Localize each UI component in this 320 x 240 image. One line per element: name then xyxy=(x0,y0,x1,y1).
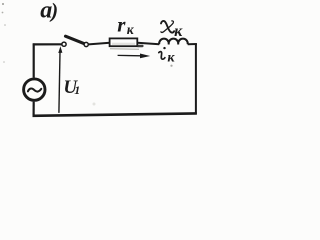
wire switch to resistor xyxy=(89,43,110,45)
svg-text:к: к xyxy=(167,50,175,65)
wire coil to right corner xyxy=(188,43,197,45)
svg-text:r: r xyxy=(117,13,126,37)
inductor x_k coil xyxy=(159,39,188,45)
wire left vertical lower xyxy=(32,102,34,116)
voltage arrow U1 xyxy=(58,46,62,113)
AC source U1 xyxy=(24,79,45,100)
ink blob smudge right of resistor xyxy=(137,45,144,47)
label x_k xyxy=(161,21,183,40)
switch S contact right xyxy=(84,42,88,46)
switch S blade xyxy=(66,36,85,44)
label a) figure part xyxy=(40,0,58,23)
wire resistor to coil xyxy=(137,43,159,45)
current arrow i_k xyxy=(118,54,151,59)
resistor r_k xyxy=(110,38,138,46)
wire right vertical xyxy=(195,44,197,115)
smudge under resistor xyxy=(110,48,139,51)
label r_k xyxy=(117,13,135,37)
svg-text:к: к xyxy=(174,23,183,40)
svg-text:): ) xyxy=(49,0,58,22)
wire bottom horizontal xyxy=(33,113,197,115)
scan speck dots xyxy=(2,3,173,106)
label U1 xyxy=(63,77,80,98)
svg-text:1: 1 xyxy=(74,83,80,97)
switch S contact left xyxy=(62,42,66,46)
label i_k xyxy=(159,47,176,66)
wire top-left horizontal xyxy=(33,43,62,45)
svg-text:к: к xyxy=(127,22,135,37)
wire left vertical upper xyxy=(33,43,35,77)
